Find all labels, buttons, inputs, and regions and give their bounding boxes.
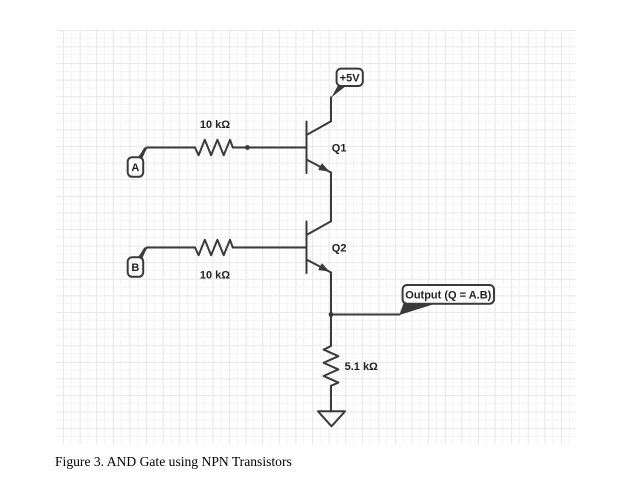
svg-text:Figure 3. AND Gate using NPN T: Figure 3. AND Gate using NPN Transistors bbox=[55, 454, 292, 469]
wire resistor to Q1 base bbox=[233, 147, 306, 149]
svg-text:+5V: +5V bbox=[340, 72, 361, 84]
value label 5.1 kOhm bbox=[345, 361, 378, 373]
wire resistor to ground bbox=[330, 386, 332, 412]
resistor 10 kOhm (input B) bbox=[195, 240, 233, 255]
transistor Q2 emitter arrowhead bbox=[319, 264, 328, 271]
label Q2 bbox=[332, 243, 347, 255]
junction node (A net to Q1 base) bbox=[245, 145, 250, 150]
wire resistor to Q2 base bbox=[233, 247, 306, 249]
svg-text:B: B bbox=[131, 262, 139, 274]
wire input A to resistor bbox=[140, 148, 196, 157]
label Q1 bbox=[332, 143, 347, 155]
svg-text:Output (Q = A.B): Output (Q = A.B) bbox=[405, 290, 491, 302]
svg-text:10 kΩ: 10 kΩ bbox=[200, 270, 230, 282]
caption Figure 3 bbox=[55, 454, 292, 469]
wire output node to callout bbox=[331, 314, 400, 316]
input flag B bbox=[128, 247, 148, 277]
junction node (output) bbox=[329, 312, 334, 317]
value label 10 kOhm (R at input B) bbox=[200, 270, 230, 282]
svg-text:A: A bbox=[131, 162, 139, 174]
svg-text:Q2: Q2 bbox=[332, 243, 347, 255]
transistor Q2 bbox=[307, 221, 332, 273]
wire Q2 emitter to output node bbox=[330, 273, 332, 347]
ground bbox=[318, 411, 345, 426]
transistor Q1 bbox=[307, 121, 332, 173]
svg-text:Q1: Q1 bbox=[332, 143, 347, 155]
transistor Q1 emitter arrowhead bbox=[319, 164, 328, 171]
input flag A bbox=[128, 147, 148, 177]
output flag Output (Q = A.B) bbox=[399, 285, 494, 315]
power flag +5V bbox=[331, 69, 363, 98]
resistor 5.1 kOhm bbox=[324, 346, 339, 386]
svg-text:10 kΩ: 10 kΩ bbox=[200, 119, 230, 131]
resistor 10 kOhm (input A) bbox=[195, 140, 233, 155]
svg-text:5.1 kΩ: 5.1 kΩ bbox=[345, 361, 378, 373]
wire Q1 emitter to Q2 collector bbox=[330, 173, 332, 222]
value label 10 kOhm (R at input A) bbox=[200, 119, 230, 131]
wire +5V to Q1 collector bbox=[330, 97, 332, 121]
wire input B to resistor bbox=[140, 248, 196, 257]
